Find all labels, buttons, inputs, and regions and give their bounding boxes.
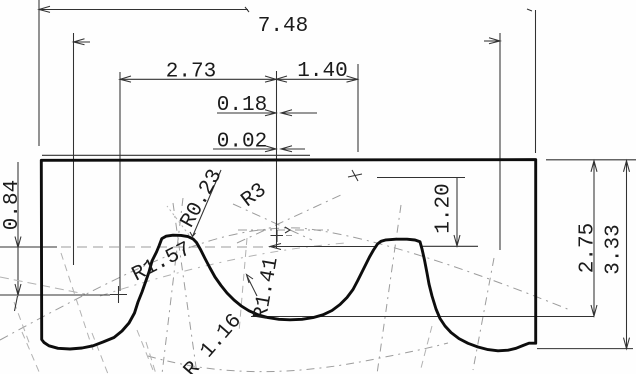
svg-text:2.75: 2.75 bbox=[577, 223, 600, 273]
svg-text:R1.57: R1.57 bbox=[129, 238, 196, 287]
svg-text:0.02: 0.02 bbox=[217, 131, 267, 154]
svg-text:R1.41: R1.41 bbox=[250, 255, 284, 321]
svg-text:7.48: 7.48 bbox=[258, 15, 308, 38]
svg-text:R3: R3 bbox=[237, 179, 271, 213]
svg-text:0.18: 0.18 bbox=[217, 94, 267, 117]
svg-text:2.73: 2.73 bbox=[166, 61, 216, 84]
svg-text:1.20: 1.20 bbox=[433, 183, 456, 233]
svg-text:R 1.16: R 1.16 bbox=[180, 310, 247, 374]
svg-text:R0.23: R0.23 bbox=[177, 166, 228, 232]
svg-text:0.84: 0.84 bbox=[1, 180, 24, 230]
svg-text:1.40: 1.40 bbox=[297, 60, 347, 83]
svg-text:3.33: 3.33 bbox=[603, 224, 626, 274]
